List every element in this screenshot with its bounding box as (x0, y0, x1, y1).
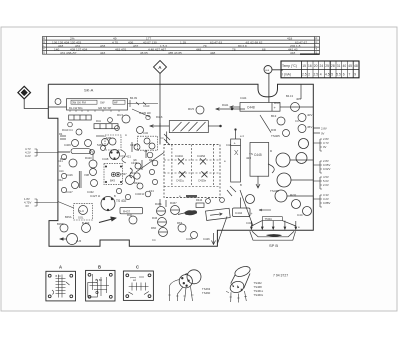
svg-text:RU3: RU3 (117, 113, 123, 117)
svg-text:25: 25 (325, 64, 329, 68)
battery wire into board (268, 74, 270, 103)
tall electrolytic right of gang (231, 129, 241, 182)
wires right top (260, 84, 320, 133)
svg-text:0.62V: 0.62V (323, 167, 330, 171)
svg-text:43 07 130: 43 07 130 (143, 40, 157, 44)
svg-text:SW: SW (100, 100, 105, 104)
small comp circle mid (137, 127, 156, 150)
svg-text:HF: HF (114, 100, 118, 104)
svg-text:C427 Ω: C427 Ω (90, 194, 101, 198)
svg-text:C409: C409 (64, 143, 71, 147)
svg-text:+: + (234, 141, 236, 145)
C445 tall rect (250, 143, 269, 189)
C442 pill (232, 198, 252, 217)
svg-text:C444: C444 (240, 96, 247, 100)
svg-text:+: + (251, 212, 253, 216)
svg-text:463 476: 463 476 (115, 47, 126, 51)
svg-text:a 4: a 4 (240, 134, 244, 138)
svg-text:79: 79 (203, 44, 207, 48)
temp/current table top right (281, 61, 359, 78)
svg-text:a.a: a.a (265, 68, 269, 72)
svg-text:B: B (114, 194, 116, 198)
svg-text:B456: B456 (57, 222, 64, 226)
svg-text:0V: 0V (323, 145, 327, 149)
svg-text:448: 448 (210, 51, 215, 55)
svg-text:437: 437 (133, 44, 138, 48)
svg-text:A: A (59, 265, 62, 270)
svg-text:C417: C417 (66, 190, 73, 194)
svg-text:431 438+57: 431 438+57 (60, 51, 77, 55)
tuning gang dashed box (164, 145, 220, 198)
C426 arrow component (203, 233, 216, 245)
svg-text:C448: C448 (247, 106, 255, 110)
svg-text:B 453: B 453 (82, 221, 90, 225)
svg-text:2.0V: 2.0V (323, 183, 329, 187)
svg-text:RU5: RU5 (188, 107, 194, 111)
svg-text:420: 420 (246, 156, 251, 160)
resistor chain box 1 (69, 115, 92, 120)
svg-text:C4: C4 (295, 119, 299, 123)
svg-text:45V: 45V (307, 125, 312, 129)
svg-text:C4: C4 (152, 238, 156, 242)
svg-text:48: 48 (354, 64, 358, 68)
big transistor TS402 (101, 197, 115, 211)
svg-text:46 65: 46 65 (140, 51, 148, 55)
svg-text:C: C (136, 265, 139, 270)
right cluster transistors (277, 103, 306, 137)
svg-text:2.8V: 2.8V (321, 126, 327, 130)
R40 circle (127, 213, 137, 224)
bottom right arrow wires (259, 209, 271, 211)
svg-text:B: B (98, 265, 101, 270)
bold arrow (tuning indicator) (99, 217, 117, 223)
svg-text:28: 28 (331, 64, 335, 68)
SK-A switch block (48, 99, 127, 112)
svg-text:31: 31 (337, 64, 341, 68)
svg-text:418: 418 (290, 51, 295, 55)
svg-text:C1 B3: C1 B3 (95, 279, 103, 282)
svg-text:R46: R46 (152, 216, 158, 220)
svg-text:C421c: C421c (176, 179, 185, 183)
svg-text:15: 15 (302, 64, 306, 68)
svg-text:R63: R63 (177, 221, 183, 225)
svg-text:C426: C426 (203, 237, 210, 241)
svg-text:R461: R461 (155, 202, 162, 206)
svg-text:4.5: 4.5 (325, 73, 330, 77)
gang bottom blob (186, 195, 197, 198)
bottom detail box C (123, 265, 153, 301)
svg-text:63,47 63: 63,47 63 (210, 40, 222, 44)
misc wires inside board (58, 100, 160, 208)
svg-text:R441: R441 (222, 103, 229, 107)
svg-text:3W GK FM: 3W GK FM (72, 100, 86, 104)
bottom middle trimmer circles (157, 206, 198, 239)
svg-text:A: A (125, 133, 127, 137)
svg-text:7 94 3727: 7 94 3727 (273, 274, 288, 278)
svg-text:C4: C4 (160, 136, 164, 140)
svg-text:C4: C4 (144, 149, 148, 153)
svg-text:C425d: C425d (197, 154, 206, 158)
svg-text:C442: C442 (235, 211, 243, 215)
svg-text:R410 C4: R410 C4 (62, 128, 73, 132)
svg-text:C421b: C421b (175, 154, 184, 158)
svg-text:S4B: S4B (106, 136, 111, 140)
svg-text:418: 418 (287, 37, 292, 41)
svg-text:9: 9 (354, 73, 356, 77)
transistor TS421 (110, 150, 120, 160)
svg-text:TS 402: TS 402 (116, 199, 127, 203)
svg-text:449: 449 (196, 47, 201, 51)
top table row label texts (43, 37, 318, 55)
svg-text:C430 Ω: C430 Ω (135, 192, 144, 196)
svg-text:R43: R43 (134, 181, 139, 185)
svg-text:485 43 85: 485 43 85 (168, 51, 182, 55)
transistor package 2 (cylinder) (226, 265, 252, 303)
right voltage bracket group1 (313, 139, 322, 151)
svg-text:1,39: 1,39 (180, 40, 186, 44)
transistor package 1 (TO-18 angled) (168, 270, 201, 301)
resistor chain box 2 (94, 124, 118, 129)
svg-text:R60: R60 (151, 226, 157, 230)
svg-text:C431: C431 (130, 143, 137, 147)
svg-text:6: 6 (343, 73, 345, 77)
svg-text:-61 62 68 62: -61 62 68 62 (245, 40, 263, 44)
svg-text:B13: B13 (271, 114, 277, 118)
bottom-left transistors (60, 224, 91, 245)
svg-text:C435: C435 (246, 221, 253, 225)
svg-text:R41: R41 (96, 119, 101, 123)
svg-text:2.5: 2.5 (302, 73, 307, 77)
svg-text:24: 24 (320, 64, 324, 68)
svg-text:DL LW MG: DL LW MG (69, 106, 83, 110)
diagonal wire from gang to C430 (136, 153, 164, 173)
svg-text:S: S (43, 51, 45, 55)
svg-text:433: 433 (100, 44, 105, 48)
right voltage bracket group4 (313, 195, 322, 207)
trimmer caps X marks (178, 158, 207, 177)
top table row1 sparse numbers (52, 37, 307, 55)
svg-text:68: 68 (262, 47, 266, 51)
svg-text:C43: C43 (149, 189, 154, 193)
battery terminal circle (264, 66, 283, 74)
svg-text:R416: R416 (156, 115, 163, 119)
right voltage bracket group2 (313, 161, 322, 173)
SP B connector pins (251, 221, 297, 230)
svg-text:443: 443 (100, 51, 105, 55)
C448 electrolytic box (230, 103, 290, 112)
wire from switch right (128, 102, 159, 117)
svg-text:R42: R42 (58, 178, 63, 182)
svg-text:C41: C41 (58, 159, 63, 163)
svg-text:S-C: S-C (79, 209, 85, 213)
svg-text:54B: 54B (97, 143, 102, 147)
SP B basket outline (250, 231, 296, 240)
svg-text:R444: R444 (196, 198, 203, 202)
svg-text:20: 20 (314, 64, 318, 68)
small dashed box mid (138, 136, 158, 150)
svg-text:2: 2 (308, 73, 310, 77)
R437 pill bottom (120, 208, 143, 214)
svg-text:5: 5 (331, 73, 333, 77)
svg-text:40: 40 (343, 64, 347, 68)
svg-text:I (mA): I (mA) (282, 73, 291, 77)
svg-text:B4.13: B4.13 (286, 94, 294, 98)
diamond B left (18, 86, 48, 108)
svg-text:R2Q: R2Q (290, 193, 297, 197)
right-mid big transistors (246, 139, 312, 216)
svg-text:C437: C437 (130, 171, 137, 175)
svg-text:B4.09: B4.09 (130, 96, 138, 100)
left column transistors rows (69, 139, 135, 189)
bottom detail box B (86, 265, 115, 302)
wire from coil box down with arrows (164, 132, 170, 146)
gang interior wires (164, 145, 220, 187)
svg-text:RU8: RU8 (274, 101, 280, 105)
bottom-left section: S-C shield can (74, 204, 93, 220)
S-A shield can dashed (105, 135, 121, 150)
svg-text:SP B: SP B (269, 243, 278, 248)
svg-text:TS405: TS405 (271, 134, 280, 138)
volume pot blob (185, 211, 197, 215)
svg-text:0.88V: 0.88V (323, 201, 330, 205)
svg-text:LU6: LU6 (76, 239, 82, 243)
svg-text:B 40: B 40 (56, 275, 62, 278)
svg-text:R4: R4 (149, 158, 153, 162)
svg-text:SK-A: SK-A (84, 88, 94, 93)
S-B shield can dashed (104, 164, 123, 185)
svg-text:4,48 437 467: 4,48 437 467 (148, 47, 166, 51)
svg-text:C44: C44 (297, 213, 303, 217)
right voltage bracket group3 (313, 177, 322, 189)
svg-text:750Ω: 750Ω (265, 217, 273, 221)
left side voltage labels group1 (35, 149, 58, 156)
diamond A top (154, 61, 167, 145)
wires to right edge (268, 160, 313, 196)
svg-text:TS460x: TS460x (254, 293, 264, 297)
svg-text:C416: C416 (66, 173, 73, 177)
svg-text:B: B (240, 183, 242, 187)
tilted box right of blob (206, 208, 231, 220)
svg-text:R467: R467 (170, 201, 177, 205)
svg-text:TS460: TS460 (202, 291, 211, 295)
svg-text:C: C (59, 164, 61, 168)
svg-text:0V: 0V (26, 204, 30, 208)
750ohm label box (262, 217, 282, 221)
svg-text:B43: B43 (110, 179, 115, 183)
svg-text:5.5: 5.5 (336, 73, 341, 77)
svg-text:S: S (315, 51, 317, 55)
svg-text:D/R: D/R (271, 128, 277, 132)
extra small components for density (58, 118, 236, 208)
svg-text:405: 405 (296, 97, 301, 101)
left side voltage labels group2 (35, 199, 58, 206)
svg-text:R420: R420 (85, 156, 92, 160)
bottom detail box A (46, 265, 76, 301)
svg-text:C43: C43 (143, 131, 148, 135)
svg-text:45: 45 (348, 64, 352, 68)
diagonal wire to SP B (217, 190, 253, 244)
svg-text:40V: 40V (307, 113, 312, 117)
svg-text:2.5: 2.5 (314, 73, 319, 77)
svg-text:GR NF SP: GR NF SP (98, 106, 111, 110)
RU5 circle + arrow (188, 106, 245, 114)
main board outline (48, 84, 313, 246)
svg-text:B45A: B45A (65, 215, 72, 219)
svg-text:4 70: 4 70 (112, 40, 118, 44)
svg-text:R40: R40 (127, 213, 133, 217)
svg-text:80 3,9: 80 3,9 (238, 44, 247, 48)
top parts table (43, 37, 320, 55)
scattered tiny labels for scan density (59, 94, 300, 242)
svg-text:16: 16 (308, 64, 312, 68)
svg-text:C410: C410 (143, 104, 150, 108)
svg-text:7: 7 (349, 73, 351, 77)
svg-text:0.2V: 0.2V (25, 154, 31, 158)
svg-text:140: 140 (54, 47, 59, 51)
svg-text:C418: C418 (102, 157, 109, 161)
svg-text:C425e: C425e (198, 179, 207, 183)
transistor RU3 (117, 113, 130, 123)
svg-text:SOL: SOL (78, 216, 84, 220)
hatched coil box (150, 121, 221, 133)
svg-text:C44: C44 (226, 143, 231, 147)
svg-text:C445: C445 (254, 153, 262, 157)
svg-text:4: 4 (320, 73, 322, 77)
svg-text:R4: R4 (59, 132, 63, 136)
svg-text:C437: C437 (120, 172, 127, 176)
svg-text:C430: C430 (186, 237, 193, 241)
svg-text:V38: V38 (84, 173, 89, 177)
svg-text:414: 414 (59, 169, 64, 173)
svg-text:78: 78 (232, 47, 236, 51)
svg-text:TS430: TS430 (270, 189, 279, 193)
svg-text:Temp (°C): Temp (°C) (282, 64, 297, 68)
svg-text:0V: 0V (321, 131, 325, 135)
svg-text:(2b: (2b (133, 158, 137, 162)
